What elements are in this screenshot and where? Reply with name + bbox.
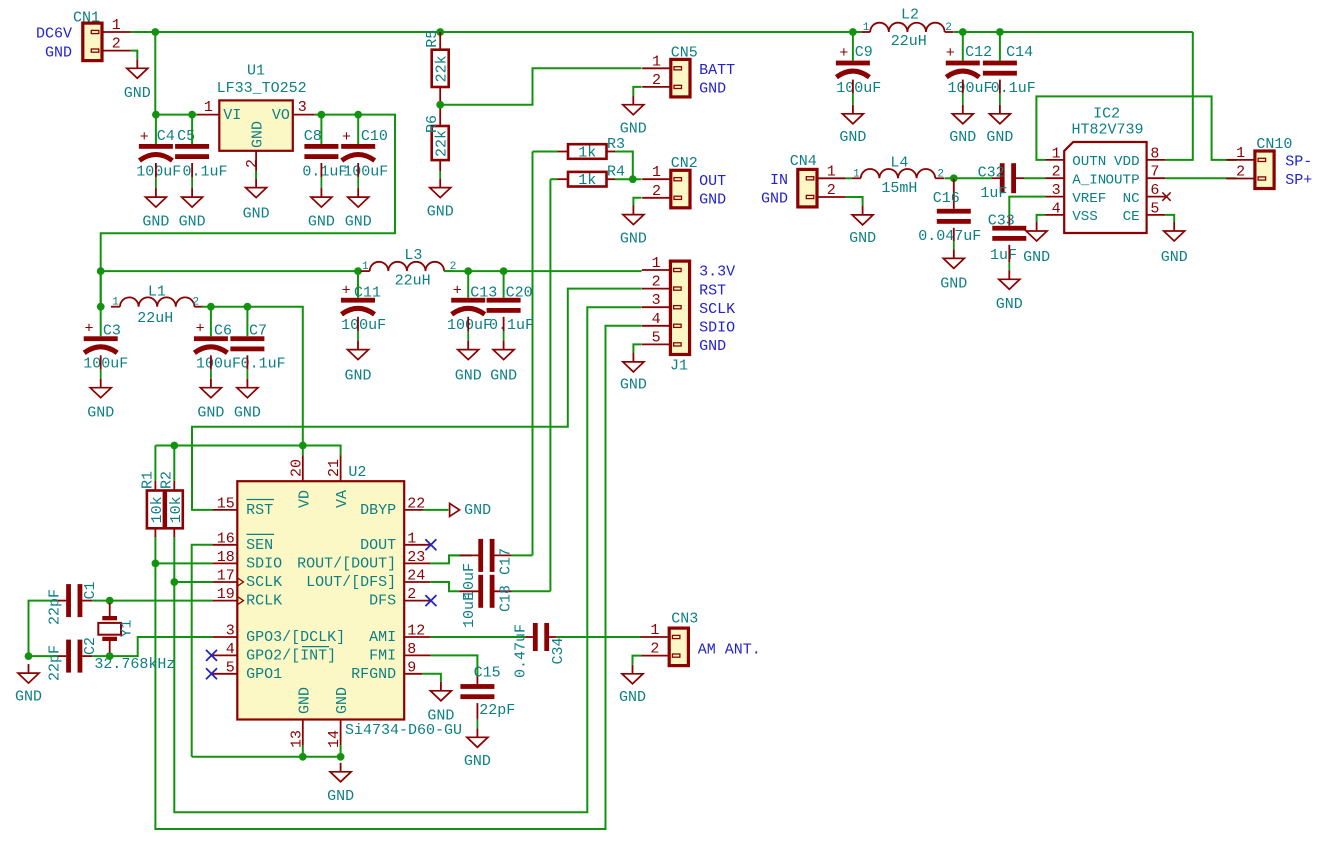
svg-text:L4: L4 [890, 155, 908, 172]
svg-text:GND: GND [427, 204, 454, 221]
wire C8 top lead [320, 115, 322, 144]
node node C7 [244, 303, 252, 311]
svg-text:12: 12 [407, 623, 425, 640]
capacitor C7 [230, 323, 285, 373]
svg-text:22pF: 22pF [479, 702, 515, 719]
wire C15 bottom lead [476, 703, 478, 728]
svg-text:3.3V: 3.3V [699, 264, 735, 281]
wire CE to GND [1165, 215, 1174, 222]
svg-text:GND: GND [464, 753, 491, 770]
node XTAL2 node [106, 652, 114, 660]
svg-text:GND: GND [1023, 249, 1050, 266]
svg-text:J1: J1 [670, 358, 688, 375]
connector J1 [642, 255, 735, 375]
svg-text:IC2: IC2 [1093, 106, 1120, 123]
svg-text:HT82V739: HT82V739 [1072, 121, 1144, 138]
wire CN2.2 to GND [633, 198, 641, 207]
svg-text:0.1uF: 0.1uF [991, 80, 1036, 97]
svg-text:DC6V: DC6V [36, 26, 72, 43]
wire R1 top pin [154, 481, 156, 491]
capacitor C14 [983, 44, 1036, 97]
node OUT node [629, 175, 637, 183]
svg-text:GND: GND [15, 689, 42, 706]
wire C10 bottom lead [357, 163, 359, 188]
wire OUTP to CN10.2 [1165, 177, 1236, 179]
svg-text:3: 3 [652, 292, 661, 309]
svg-text:CN4: CN4 [790, 153, 817, 170]
svg-text:GND: GND [45, 44, 72, 61]
node VO node C10 [354, 111, 362, 119]
svg-text:9: 9 [407, 659, 416, 676]
svg-text:+: + [839, 45, 848, 62]
svg-text:2: 2 [827, 182, 836, 199]
svg-text:C9: C9 [855, 44, 873, 61]
capacitor C1 [47, 581, 100, 625]
svg-text:4: 4 [652, 311, 661, 328]
svg-text:GND: GND [949, 129, 976, 146]
wire CN4.2 to GND [846, 197, 863, 206]
ground C13 [455, 341, 482, 385]
svg-text:L1: L1 [148, 284, 166, 301]
inductor L4 [852, 155, 944, 198]
svg-text:R4: R4 [607, 164, 625, 181]
wire LOUT vertical [549, 179, 551, 591]
svg-text:+: + [140, 129, 149, 146]
svg-text:C4: C4 [157, 128, 175, 145]
capacitor C13 [447, 283, 497, 335]
wire VD drop [302, 446, 304, 456]
svg-text:CN2: CN2 [671, 155, 698, 172]
svg-text:1: 1 [827, 163, 836, 180]
wire C6 bottom lead [210, 355, 212, 378]
wire GND rail [192, 756, 341, 758]
svg-text:R3: R3 [607, 136, 625, 153]
svg-text:1: 1 [853, 168, 860, 180]
svg-text:CN10: CN10 [1256, 136, 1292, 153]
svg-text:0.1uF: 0.1uF [489, 317, 534, 334]
svg-text:1uF: 1uF [990, 247, 1017, 264]
svg-text:DFS: DFS [369, 593, 396, 610]
wire VO rail [101, 115, 395, 307]
svg-text:22uH: 22uH [891, 33, 927, 50]
wire R4 right lead [607, 178, 616, 180]
ground C11 [344, 341, 371, 385]
svg-text:0.047uF: 0.047uF [918, 228, 981, 245]
wire C33 top lead [1008, 217, 1010, 226]
svg-text:1: 1 [204, 99, 213, 116]
svg-text:L3: L3 [404, 247, 422, 264]
svg-text:GND: GND [699, 338, 726, 355]
svg-text:GND: GND [464, 502, 491, 519]
svg-text:1: 1 [652, 255, 661, 272]
capacitor C32 [978, 163, 1024, 202]
svg-text:C17: C17 [498, 548, 515, 575]
node node C14 [996, 28, 1004, 36]
resistor R6 [424, 115, 451, 160]
wire U2.13 lead [302, 745, 304, 756]
svg-text:15mH: 15mH [881, 180, 917, 197]
svg-text:7: 7 [1150, 164, 1159, 181]
svg-text:GND: GND [849, 230, 876, 247]
ground C14 [986, 105, 1013, 146]
svg-text:R2: R2 [158, 471, 175, 489]
svg-text:GND: GND [344, 368, 371, 385]
wire ROUT to C17 [430, 555, 472, 563]
svg-text:8: 8 [407, 641, 416, 658]
svg-text:GND: GND [334, 687, 351, 714]
ground J1 [620, 353, 647, 394]
capacitor C20 [487, 285, 534, 335]
svg-text:AMI: AMI [369, 629, 396, 646]
svg-text:0.47uF: 0.47uF [513, 624, 530, 678]
svg-text:VD: VD [296, 490, 313, 508]
wire FMI to C15 [431, 655, 478, 675]
svg-text:C15: C15 [474, 665, 501, 682]
ground C33 [996, 270, 1023, 313]
wire R2 top lead [173, 446, 175, 481]
ground C20 [490, 341, 517, 385]
connector CN5 [642, 44, 735, 97]
wire rail down to L1 [100, 271, 102, 307]
wire VA rail [155, 446, 340, 456]
svg-text:GND: GND [87, 405, 114, 422]
node rail node R2 [170, 442, 178, 450]
svg-text:100uF: 100uF [836, 80, 881, 97]
wire R3 left to C17 [533, 151, 558, 153]
svg-text:+: + [342, 283, 351, 300]
capacitor C8 [302, 128, 347, 180]
ground C9 [839, 105, 866, 146]
wire C3 top lead [100, 307, 102, 337]
wire VSS to GND [1037, 215, 1046, 222]
ground U1 [243, 179, 270, 223]
wire C1 right to RCLK node [92, 600, 109, 602]
svg-text:1uF: 1uF [980, 185, 1007, 202]
svg-text:0.1uF: 0.1uF [183, 163, 228, 180]
resistor R5 [424, 30, 451, 87]
svg-text:+: + [946, 45, 955, 62]
node L1.1 node [97, 303, 105, 311]
ground C7 [234, 379, 261, 422]
svg-text:1: 1 [362, 261, 369, 273]
svg-text:10uF: 10uF [461, 592, 478, 628]
svg-text:22uH: 22uH [137, 310, 173, 327]
svg-text:GND: GND [455, 368, 482, 385]
svg-text:100uF: 100uF [343, 163, 388, 180]
ground C8 [308, 188, 335, 230]
svg-text:GND: GND [619, 689, 646, 706]
capacitor C34 [513, 623, 568, 678]
ground R6 [427, 179, 454, 221]
node AIN node [950, 174, 958, 182]
svg-text:CE: CE [1123, 209, 1140, 225]
svg-text:GND: GND [142, 214, 169, 231]
svg-text:GND: GND [761, 191, 788, 208]
svg-text:GND: GND [179, 214, 206, 231]
wire R5-R6 leads [439, 87, 441, 126]
wire R4 left to C18 [550, 178, 557, 180]
wire C7 top lead [246, 307, 248, 337]
svg-text:2: 2 [1052, 164, 1061, 181]
svg-text:C2: C2 [82, 637, 99, 655]
wire R5 top lead [439, 32, 441, 50]
wire C3 bottom lead [100, 355, 102, 378]
wire C5 top lead [191, 115, 193, 144]
wire C4 top lead [155, 115, 157, 144]
svg-text:SDIO: SDIO [246, 555, 282, 572]
svg-text:GND: GND [839, 129, 866, 146]
svg-text:1: 1 [112, 297, 119, 309]
capacitor C9 [836, 44, 881, 97]
svg-text:SCLK: SCLK [699, 301, 735, 318]
capacitor C5 [175, 128, 227, 180]
capacitor C3 [83, 321, 128, 373]
wire C34 to CN3.1 [557, 636, 642, 638]
ground C1C2 [15, 664, 42, 706]
wire C15 top lead [476, 676, 478, 684]
svg-text:17: 17 [217, 568, 235, 585]
connector CN4 [761, 153, 846, 208]
svg-text:IN: IN [770, 172, 788, 189]
svg-text:GND: GND [490, 368, 517, 385]
wire R2 to SCLK node [173, 537, 175, 582]
svg-text:5: 5 [226, 659, 235, 676]
wire XTAL2 to GPO3 [110, 637, 213, 656]
connector CN1 [36, 10, 131, 62]
node VO node C8 [318, 111, 326, 119]
capacitor C15 [460, 665, 515, 720]
svg-text:GND: GND [699, 81, 726, 98]
svg-text:+: + [196, 321, 205, 338]
node L2.2 node C12 [959, 28, 967, 36]
svg-text:C18: C18 [498, 585, 515, 612]
svg-text:C20: C20 [506, 285, 533, 302]
svg-text:GND: GND [699, 192, 726, 209]
wire C9 top lead [852, 32, 854, 61]
wire R4 left lead [558, 178, 569, 180]
wire R2 top pin [173, 481, 175, 491]
svg-text:2: 2 [937, 168, 944, 180]
node VI node C4 [152, 111, 160, 119]
svg-text:C10: C10 [361, 128, 388, 145]
svg-text:100uF: 100uF [196, 355, 241, 372]
svg-text:3: 3 [298, 99, 307, 116]
svg-text:13: 13 [288, 730, 305, 748]
node VI node C5 [188, 111, 196, 119]
svg-text:GND: GND [1161, 249, 1188, 266]
wire AIN node to C32 [954, 177, 992, 179]
svg-text:DOUT: DOUT [360, 537, 396, 554]
ground CN5 [620, 96, 647, 138]
crystal Y1 32.768kHz [94, 603, 175, 673]
svg-text:RST: RST [246, 502, 273, 519]
svg-text:100uF: 100uF [447, 317, 492, 334]
svg-text:C16: C16 [933, 190, 960, 207]
wire J1.4 SDIO net [155, 326, 641, 829]
node SDIO node [152, 560, 160, 568]
svg-text:C8: C8 [304, 128, 322, 145]
wire VI rail [155, 114, 197, 116]
wire R3 left lead [558, 151, 569, 153]
svg-text:22pF: 22pF [47, 589, 64, 625]
svg-text:SP-: SP- [1285, 154, 1312, 171]
wire C17 right to R3 vertical [512, 554, 533, 556]
svg-text:100uF: 100uF [136, 163, 181, 180]
svg-text:LF33_TO252: LF33_TO252 [217, 80, 307, 97]
wire R2 bottom pin [173, 528, 175, 537]
svg-text:1: 1 [407, 530, 416, 547]
wire U1.GND to ground [255, 171, 257, 179]
wire J1.2 RST net [192, 289, 642, 510]
svg-text:CN5: CN5 [671, 44, 698, 61]
svg-text:+: + [342, 129, 351, 146]
svg-text:GND: GND [234, 405, 261, 422]
svg-text:SEN: SEN [246, 537, 273, 554]
resistor R4 [568, 164, 625, 190]
inductor L2 [861, 7, 953, 51]
svg-text:GND: GND [243, 205, 270, 222]
svg-text:ROUT/[DOUT]: ROUT/[DOUT] [297, 555, 396, 572]
wire J1.3 SCLK net [174, 307, 641, 812]
wire C7 bottom lead [246, 355, 248, 378]
svg-text:15: 15 [217, 495, 235, 512]
wire 3.3V rail upper [101, 270, 358, 272]
connector CN2 [642, 155, 726, 209]
svg-text:NC: NC [1123, 191, 1140, 207]
wire SEN to GND net [192, 545, 213, 757]
svg-text:GND: GND [249, 121, 266, 148]
node rail node C11 [354, 267, 362, 275]
capacitor C33 [988, 212, 1027, 263]
svg-text:C1: C1 [82, 581, 99, 599]
wire VDD down to IC2.8 [1165, 32, 1193, 160]
svg-text:22k: 22k [434, 130, 451, 157]
capacitor C16 [918, 190, 981, 245]
regulator U1 LF33_TO252 [198, 63, 315, 172]
svg-text:10k: 10k [149, 496, 166, 523]
ground IC2 VSS [1023, 222, 1050, 266]
wire C6 top lead [210, 307, 212, 337]
svg-text:23: 23 [407, 549, 425, 566]
svg-text:VSS: VSS [1072, 209, 1098, 225]
node gnd node 14 [337, 753, 345, 761]
wire SDIO to U2.18 [155, 562, 212, 564]
node rail node C20 [500, 267, 508, 275]
wire CN1.2 to GND [131, 51, 138, 60]
svg-text:1: 1 [652, 164, 661, 181]
ground IC2 CE [1161, 222, 1188, 266]
svg-text:22: 22 [407, 495, 425, 512]
wire C12 bottom lead [962, 80, 964, 105]
ground C16 [940, 249, 967, 292]
svg-text:GPO2/[INT]: GPO2/[INT] [246, 647, 336, 664]
ground C6 [197, 379, 224, 422]
inductor L1 [111, 284, 203, 327]
node gnd node 13 [299, 753, 307, 761]
wire C17 to R3 vertical [449, 554, 459, 556]
svg-text:DBYP: DBYP [360, 502, 396, 519]
svg-text:VREF: VREF [1072, 191, 1106, 207]
svg-text:VDD: VDD [1114, 154, 1140, 170]
wire R6 bottom lead [439, 160, 441, 179]
ground C12 [949, 105, 976, 146]
radio U2 Si4734-D60-GU [206, 455, 462, 748]
svg-text:GND: GND [197, 405, 224, 422]
capacitor C12 [946, 44, 993, 97]
capacitor C4 [136, 128, 181, 180]
node SCLK node [170, 578, 178, 586]
wire CN5.2 to GND [633, 87, 641, 96]
wire CN1.1 to top rail [131, 31, 156, 33]
wire C20 bottom lead [503, 317, 505, 341]
svg-text:2: 2 [945, 22, 952, 34]
svg-text:2: 2 [650, 641, 659, 658]
svg-text:2: 2 [652, 72, 661, 89]
wire top rail VIN [155, 31, 861, 33]
ground C15 [464, 728, 491, 770]
node R5/R6 node [436, 101, 444, 109]
connector CN10 [1226, 136, 1312, 189]
svg-text:GPO1: GPO1 [246, 666, 282, 683]
wire J1.5 to GND [633, 344, 641, 353]
ground CN2 [620, 206, 647, 248]
svg-text:GND: GND [345, 214, 372, 231]
svg-text:VI: VI [223, 107, 241, 124]
capacitor C18 [459, 575, 514, 628]
capacitor C6 [194, 321, 241, 373]
svg-text:22pF: 22pF [47, 645, 64, 681]
wire C32 to IC2.2 [1024, 177, 1046, 179]
svg-text:LOUT/[DFS]: LOUT/[DFS] [306, 574, 396, 591]
ground CN3 [619, 665, 646, 706]
wire R3 to OUT node [615, 152, 633, 180]
wire VIN down to U1.VI [154, 32, 156, 115]
svg-text:2: 2 [652, 183, 661, 200]
svg-text:19: 19 [217, 586, 235, 603]
svg-text:R6: R6 [424, 115, 441, 133]
wire R1 bottom pin [154, 528, 156, 537]
svg-text:+: + [84, 321, 93, 338]
svg-text:GND: GND [427, 707, 454, 724]
svg-text:C12: C12 [965, 44, 992, 61]
wire BATT net R5/R6 to CN5.1 [440, 68, 641, 105]
svg-text:C6: C6 [214, 323, 232, 340]
svg-text:32.768kHz: 32.768kHz [94, 656, 175, 673]
svg-text:AM ANT.: AM ANT. [698, 641, 761, 658]
wire ROUT vertical [532, 152, 534, 556]
ground RFGND [427, 682, 454, 725]
svg-text:14: 14 [326, 730, 343, 748]
connector CN3 [641, 611, 699, 666]
svg-text:2: 2 [652, 274, 661, 291]
svg-text:100uF: 100uF [948, 80, 993, 97]
wire VREF to C33 [1009, 197, 1045, 217]
wire C8 bottom lead [320, 163, 322, 188]
svg-text:CN1: CN1 [73, 10, 100, 27]
svg-text:A_IN: A_IN [1072, 173, 1106, 189]
svg-text:CN3: CN3 [671, 611, 698, 628]
ground C10 [345, 188, 372, 230]
svg-text:0.1uF: 0.1uF [302, 163, 347, 180]
capacitor C11 [341, 283, 386, 335]
svg-text:C34: C34 [550, 637, 567, 664]
node XTAL1 node [106, 597, 114, 605]
wire C2 right lead [92, 655, 109, 657]
svg-text:C33: C33 [988, 212, 1015, 229]
svg-text:GND: GND [996, 296, 1023, 313]
wire RCLK wire [110, 600, 213, 602]
wire C20 top lead [503, 271, 505, 298]
